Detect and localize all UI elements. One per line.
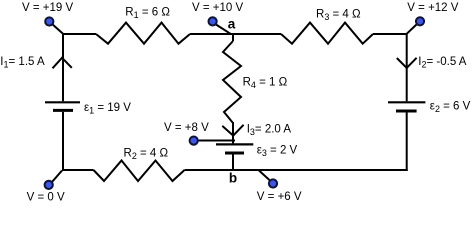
svg-text:R2 = 4 Ω: R2 = 4 Ω — [124, 147, 169, 161]
battery E1 short plate — [53, 109, 73, 112]
wire middle branch top stub — [232, 33, 234, 41]
svg-text:b: b — [229, 170, 237, 185]
resistor R1 — [96, 23, 190, 44]
svg-text:V = +19 V: V = +19 V — [22, 2, 73, 14]
wire stub node +6V — [259, 171, 271, 182]
resistor R2 — [94, 161, 185, 182]
battery E3 long plate — [216, 143, 253, 145]
wire top rail left segment — [63, 33, 96, 35]
node dot V=+8V — [190, 137, 198, 145]
battery E3 short plate — [225, 152, 244, 155]
battery E1 long plate — [45, 101, 80, 103]
node dot V=+12V — [416, 17, 424, 25]
wire middle branch lower — [232, 154, 234, 171]
svg-text:R3 = 4 Ω: R3 = 4 Ω — [316, 8, 361, 22]
wire left branch upper — [62, 33, 64, 101]
resistor R3 — [281, 23, 373, 44]
node dot V=+10V — [209, 17, 217, 25]
current arrow I1 (up) — [53, 58, 72, 69]
svg-text:R4 = 1 Ω: R4 = 1 Ω — [243, 77, 288, 91]
svg-text:I3= 2.0 A: I3= 2.0 A — [247, 123, 292, 137]
svg-text:ε3 = 2 V: ε3 = 2 V — [257, 145, 298, 159]
svg-text:ε1 = 19 V: ε1 = 19 V — [84, 102, 131, 116]
wire bottom rail right segment — [185, 169, 408, 171]
svg-text:V = +6 V: V = +6 V — [257, 191, 302, 203]
wire right branch upper — [406, 33, 408, 101]
svg-text:ε2 = 6 V: ε2 = 6 V — [430, 100, 471, 114]
svg-text:I2= -0.5 A: I2= -0.5 A — [418, 56, 467, 70]
wire top rail right segment — [373, 33, 407, 35]
svg-text:V = +8 V: V = +8 V — [164, 122, 209, 134]
wire stub node +12V — [407, 25, 417, 34]
svg-text:V = +10 V: V = +10 V — [192, 2, 243, 14]
wire top rail middle segment — [190, 33, 281, 35]
svg-text:I1= 1.5 A: I1= 1.5 A — [0, 56, 45, 70]
svg-text:V = +12 V: V = +12 V — [407, 2, 458, 14]
wire stub node +8V — [197, 140, 235, 142]
node dot V=+19V — [45, 17, 53, 25]
wire bottom rail left segment — [62, 169, 94, 171]
wire stub node 0V — [52, 171, 62, 183]
svg-text:R1 = 6 Ω: R1 = 6 Ω — [125, 7, 170, 21]
battery E2 long plate — [388, 101, 425, 103]
node dot V=0V — [45, 181, 53, 189]
node dot V=+6V — [269, 179, 277, 187]
wire stub node +10V — [216, 25, 231, 34]
wire left branch lower — [62, 112, 64, 171]
current arrow I3 (down) — [222, 125, 243, 136]
wire right branch lower — [406, 113, 408, 172]
wire stub node +19V — [53, 24, 64, 33]
battery E2 short plate — [396, 110, 417, 113]
current arrow I2 (down) — [397, 58, 417, 68]
svg-text:a: a — [228, 17, 236, 32]
resistor R4 — [223, 41, 241, 123]
wire middle branch between R4 and battery — [232, 122, 234, 143]
svg-text:V = 0 V: V = 0 V — [27, 191, 65, 203]
